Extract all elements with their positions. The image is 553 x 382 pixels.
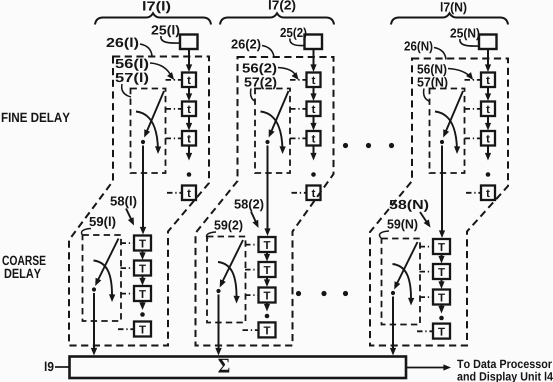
wire T1-T2 ch2 [266,252,268,259]
fine delay element t3 chN [481,131,495,146]
wire t2-t3 chl [188,116,190,128]
tap dash-dot t-last ch2 [292,192,307,194]
fine delay element t-last chN [481,186,495,201]
label 26(2) [231,39,260,51]
selector switch box 59(2) [207,237,246,323]
wire t2-t3 ch2 [313,116,315,128]
switch wiper 59(l) [97,239,119,284]
fine delay element t1 chl [182,73,196,88]
switch rotate arrow 59(2) [218,262,237,300]
wire 59(2) output to summer [218,295,220,352]
ellipsis dot fine chl [187,172,192,177]
switch wiper 57(2) [270,91,289,135]
wire T1-T2 chl [142,251,144,258]
fine delay element t3 chl [182,131,196,146]
wire 25(l) to first t [188,50,190,70]
output arrow to data processor [407,367,447,369]
leader arrow 58(N) [420,212,428,224]
coarse delay element T3 chN [433,290,450,305]
tap dash-dot T3 ch2 [245,294,258,296]
fine delay element t2 chN [481,102,495,117]
coarse delay element T3 ch2 [259,288,276,303]
coarse delay element T-last ch2 [259,322,276,337]
leader arrow 56(2) [278,68,297,78]
leader arrow 58(2) [251,212,257,225]
label 25(2) [280,28,306,40]
label 59(l) [89,217,115,229]
tap dash-dot t3 chN [465,137,481,139]
tap dash-dot T2 chN [420,271,433,273]
switch rotate arrow 57(l) [136,112,158,151]
label 19 [45,362,54,372]
switch contact dot 59(2) [216,289,220,293]
tap dash-dot T2 chl [121,267,134,269]
label 58(2) [234,199,263,211]
coarse delay element T2 ch2 [259,262,276,277]
label COARSE DELAY [2,256,45,266]
leader 26(2) [262,46,274,58]
dashed enclosure 26(2) outline [196,57,334,346]
tap dash-dot t-last chl [167,192,182,194]
ellipsis dots fine between channels [343,143,348,148]
label 25(N) [450,28,479,40]
switch wiper 57(l) [146,91,165,135]
tap dash-dot T-last chN [417,330,433,332]
wire t2-t3 chN [487,116,489,128]
wire T2-T3 chN [441,279,443,287]
tap dash-dot T1 chl [121,242,134,244]
input element 25(N) square [479,35,497,50]
coarse delay element T1 chN [433,239,450,254]
switch contact dot 57(N) [440,140,444,144]
tap dash-dot T3 chN [420,296,433,298]
label 58(N) [389,200,428,212]
coarse delay element T3 chl [134,286,151,301]
leader arrow 58(l) [126,209,133,223]
label 17(N) [441,2,467,14]
tap dash-dot T1 chN [420,246,433,248]
tap dash-dot t1 chN [465,79,481,81]
tap dash-dot t2 chN [465,108,481,110]
wire 25(N) to first t [487,50,489,70]
label FINE DELAY [2,113,70,122]
dashed enclosure 26(N) outline [370,59,508,346]
label 57(l) [116,73,149,85]
wire below T3 chl [142,301,144,307]
tap dash-dot t3 chl [166,137,182,139]
tap dash-dot t3 ch2 [290,137,306,139]
coarse delay element T1 ch2 [259,237,276,252]
wire below t3 chN [487,146,489,158]
switch rotate arrow 59(N) [393,264,412,302]
leader arrow 56(l) [150,63,172,78]
label 17(l) [143,1,170,13]
switch rotate arrow 59(l) [94,261,113,299]
wire 59(N) output to summer [392,297,394,352]
tap dash-dot t-last chN [466,192,481,194]
fine delay element t3 ch2 [307,131,321,146]
tap dash-dot t1 chl [166,79,182,81]
brace 17(2) [220,13,334,24]
coarse delay element T2 chN [433,264,450,279]
leader 25(l) [161,36,180,43]
selector switch box 59(N) [382,239,421,325]
tap dash-dot t1 ch2 [290,79,306,81]
wire t1-t2 chN [487,87,489,99]
label 58(l) [110,196,136,208]
wire 57(l) output to coarse chain [142,146,144,232]
fine delay element t2 chl [182,102,196,117]
leader 19 [55,366,69,368]
leader 59(2) [206,232,216,239]
label 25(l) [151,25,179,37]
coarse delay element T-last chN [433,324,450,339]
fine delay element t1 chN [481,73,495,88]
leader 25(N) [460,39,479,46]
label To Data Processor [457,360,552,368]
wire t1-t2 ch2 [313,87,315,99]
switch contact dot 59(N) [391,291,395,295]
leader 59(l) [81,229,91,236]
label 56(2) [242,63,276,75]
label 17(2) [269,0,295,12]
wire below T3 ch2 [266,303,268,309]
brace 17(l) [95,13,211,24]
tap dash-dot T1 ch2 [245,244,258,246]
tap dash-dot T3 chl [121,293,134,295]
input element 25(2) square [305,35,323,50]
selector switch box 57(l) [131,89,166,174]
label 26(N) [404,41,432,53]
leader 25(2) [290,39,304,46]
switch contact dot 57(l) [141,140,145,144]
tap dash-dot T-last chl [118,328,134,330]
ellipsis dot coarse chl [140,312,145,317]
label 26(l) [107,38,139,50]
leader 59(N) [379,231,389,238]
ellipsis dot fine chN [486,172,491,177]
label 57(2) [244,77,276,89]
tap dash-dot T2 ch2 [245,269,258,271]
label 59(N) [387,219,417,231]
switch wiper 59(2) [221,240,243,285]
wire T1-T2 chN [441,254,443,261]
label and Display Unit 14 [457,372,553,382]
ellipsis dots coarse between channels [296,291,301,296]
brace 17(N) [391,13,508,24]
label 59(2) [214,220,242,232]
ellipsis dot coarse chN [439,316,444,321]
wire 59(l) output to summer [93,293,95,351]
leader 57(2) [251,89,256,102]
dashed enclosure 26(l) outline [69,57,209,346]
wire T2-T3 ch2 [266,277,268,285]
input element 25(l) square [180,35,198,50]
coarse delay element T1 chl [134,236,151,251]
switch wiper 59(N) [396,242,418,287]
label 56(N) [417,64,446,76]
leader arrow 56(N) [448,69,471,78]
ellipsis dot fine ch2 [311,172,316,177]
tap dash-dot t2 chl [166,108,182,110]
fine delay element t1 ch2 [307,73,321,88]
switch wiper 57(N) [445,91,464,135]
summer 19 box [70,357,407,379]
label 57(N) [417,77,447,89]
wire T2-T3 chl [142,276,144,284]
coarse delay element T-last chl [134,322,151,337]
switch contact dot 59(l) [92,287,96,291]
selector switch box 59(l) [83,235,122,321]
label 56(l) [116,59,149,71]
ellipsis dot coarse ch2 [265,314,270,319]
fine delay element t-last chl [182,186,196,201]
tap dash-dot t2 ch2 [290,108,306,110]
fine delay element t2 ch2 [307,102,321,117]
leader 26(l) [140,44,152,56]
tap dash-dot T-last ch2 [243,329,259,331]
summer sigma symbol [218,359,229,373]
leader 57(l) [122,84,131,97]
wire 57(2) output to coarse chain [267,146,269,233]
wire below T3 chN [441,305,443,311]
leader 26(N) [434,48,446,60]
switch rotate arrow 57(2) [261,112,283,151]
leader 57(N) [424,89,430,102]
wire t1-t2 chl [188,87,190,99]
wire below t3 chl [188,146,190,158]
wire 57(N) output to coarse chain [441,146,443,235]
wire below t3 ch2 [313,146,315,158]
fine delay element t-last ch2 [307,186,321,201]
switch contact dot 57(2) [265,140,269,144]
coarse delay element T2 chl [134,261,151,276]
selector switch box 57(N) [430,89,465,174]
wire 25(2) to first t [313,50,315,70]
switch rotate arrow 57(N) [435,112,457,151]
selector switch box 57(2) [255,89,290,174]
